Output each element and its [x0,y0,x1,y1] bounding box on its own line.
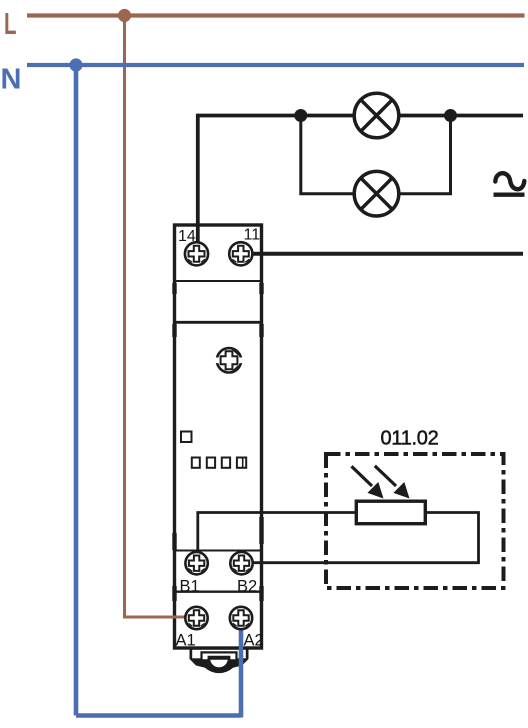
DIN rail clip inner white area [192,650,246,659]
DIP switch square 3 [222,458,230,468]
left edge tick below second divider [172,324,176,337]
svg-text:B1: B1 [180,577,200,595]
DIP switch square 2 [207,458,215,468]
DIN rail clip spring slot [202,652,237,660]
screw terminal 11 [229,242,252,265]
svg-text:A2: A2 [244,631,264,649]
N drop wire [74,65,79,716]
lamp E2 [354,171,399,216]
svg-text:L: L [4,6,17,41]
photoresistor body [356,501,425,524]
divider between B and A terminal blocks [176,591,260,593]
right edge tick below second divider [259,324,263,337]
AC supply symbol [494,173,525,195]
divider below collar section [176,321,260,324]
screw terminal 14 [185,242,208,265]
relay module K1 body [175,225,262,648]
DIN rail clip outer shape [190,647,249,674]
N junction dot [69,58,82,71]
DIP switch square 1 [192,458,200,468]
light arrow 1 [352,466,384,498]
right edge tick below first divider [259,283,263,294]
wire from sensor right side down to terminal B2 [250,513,479,563]
svg-text:011.02: 011.02 [381,427,439,449]
wire from terminal 11 to right [250,252,523,256]
DIN rail clip bottom semicircle [209,659,229,669]
divider below top terminal block [176,280,260,282]
svg-text:N: N [1,63,22,95]
sensor enclosure box (dash-dot) [326,454,504,588]
L line (phase) [27,13,525,17]
DIP switch square 4 (split) [237,458,246,468]
left edge tick at B/A divider [172,586,176,601]
N bottom wire [76,713,241,718]
wire from lamp line down into terminal 14 [198,116,523,251]
lamp E1 [354,93,399,138]
svg-text:14: 14 [178,228,196,245]
screw terminal A1 [185,607,207,629]
screw terminal A2 [230,607,252,629]
left edge tick above B block [172,533,176,550]
divider above B terminal block [176,550,260,552]
junction dot right of lamps [444,109,457,122]
right edge tick at B/A divider [259,586,263,601]
svg-text:11: 11 [244,227,261,244]
wire from terminal B1 up and right to sensor [198,513,358,556]
N wire up into terminal A2 [239,624,244,718]
indicator window square [181,432,192,443]
L drop wire [123,16,126,619]
wire right lamp branch [398,116,451,194]
left edge tick below first divider [172,283,176,294]
screw terminal B2 [230,552,252,574]
svg-text:A1: A1 [176,631,196,649]
light arrow 2 [375,466,410,499]
L wire into terminal A1 [123,616,188,619]
screw terminal B1 [185,552,207,574]
wire left lamp branch [301,116,356,194]
central fixing screw [215,348,243,372]
svg-text:B2: B2 [237,577,257,595]
junction dot left of lamps [294,109,307,122]
right edge tick above B block [259,517,263,544]
N line (neutral) [27,63,524,67]
L junction dot [118,9,131,22]
